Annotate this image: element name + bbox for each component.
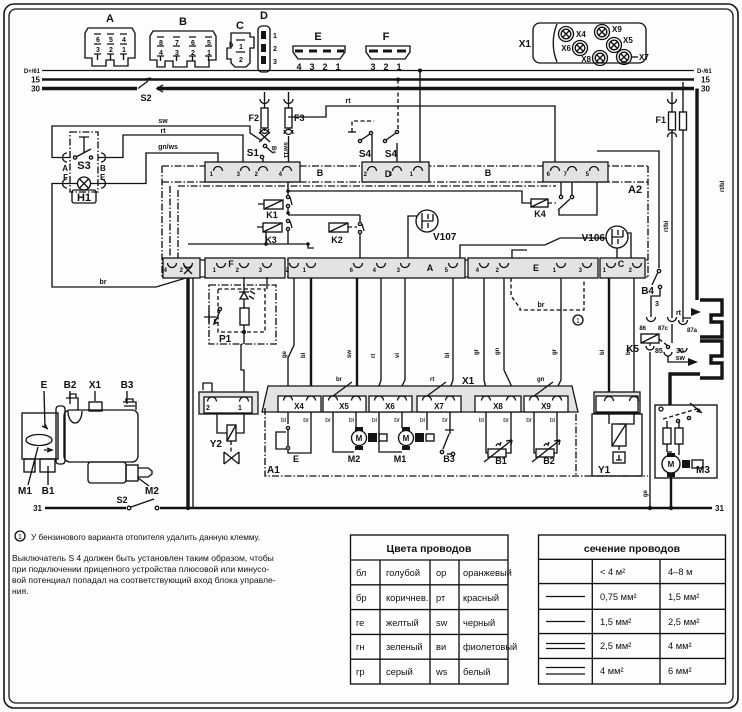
svg-text:2: 2 <box>273 46 277 53</box>
connector F <box>366 31 410 72</box>
svg-text:B1: B1 <box>42 486 55 497</box>
sensor B1 <box>484 424 512 466</box>
motor M1 <box>379 424 434 464</box>
switch S3 with lamp H1 block <box>62 132 106 192</box>
svg-text:5: 5 <box>109 37 113 44</box>
svg-text:X7: X7 <box>639 53 649 62</box>
valve Y2 <box>210 414 244 464</box>
svg-text:rt: rt <box>430 377 434 383</box>
svg-text:gn/ws: gn/ws <box>158 144 178 151</box>
svg-text:D: D <box>260 10 268 22</box>
svg-text:bl: bl <box>550 417 556 424</box>
svg-text:X4: X4 <box>294 402 304 411</box>
connector X7 <box>417 396 461 412</box>
connector X8 <box>475 396 521 412</box>
wire vi <box>395 278 405 396</box>
svg-text:K2: K2 <box>331 235 343 245</box>
fuse F3 <box>284 92 305 166</box>
svg-text:6: 6 <box>191 40 195 47</box>
motor unit M3 <box>655 403 717 508</box>
svg-text:0,75 мм²: 0,75 мм² <box>600 592 637 602</box>
svg-text:A2: A2 <box>628 184 642 196</box>
svg-text:4: 4 <box>122 37 126 44</box>
strip pins bottom row <box>168 263 642 268</box>
svg-text:S3: S3 <box>77 160 90 172</box>
svg-text:rt: rt <box>345 98 351 105</box>
svg-text:F: F <box>383 31 390 43</box>
svg-text:B: B <box>317 168 324 178</box>
svg-text:2,5 мм²: 2,5 мм² <box>668 617 699 627</box>
svg-text:желтый: желтый <box>386 618 419 628</box>
svg-text:br: br <box>538 302 545 309</box>
svg-text:br: br <box>100 279 107 286</box>
svg-text:7: 7 <box>175 40 179 47</box>
svg-text:b: b <box>229 42 233 49</box>
svg-text:3: 3 <box>96 47 100 54</box>
svg-text:зеленый: зеленый <box>386 642 423 652</box>
K2 contact <box>358 215 364 258</box>
svg-text:X1: X1 <box>519 39 532 50</box>
svg-text:B: B <box>100 164 106 173</box>
svg-text:D-/61: D-/61 <box>697 69 712 75</box>
svg-text:C: C <box>236 20 244 32</box>
svg-text:K1: K1 <box>266 210 278 220</box>
connector X6 <box>369 396 412 412</box>
fuse F2 <box>248 92 269 134</box>
svg-text:K5: K5 <box>626 344 639 355</box>
wire rt diagonal <box>427 377 446 396</box>
note 1 text <box>15 531 260 542</box>
switch E in A1 <box>276 424 311 464</box>
bus 30 right heavy drop <box>695 89 698 301</box>
wire to V106 <box>460 233 631 258</box>
svg-text:M1: M1 <box>394 454 407 464</box>
svg-text:15: 15 <box>701 76 710 85</box>
svg-text:K4: K4 <box>534 209 546 219</box>
svg-text:при подключении прицепного уст: при подключении прицепного устройства пл… <box>12 564 269 574</box>
svg-text:X5: X5 <box>623 36 633 45</box>
motor M2 <box>333 424 387 464</box>
connector E <box>293 31 345 72</box>
svg-text:M3: M3 <box>696 465 710 476</box>
connector X5 <box>323 396 366 412</box>
svg-text:rt: rt <box>160 128 166 135</box>
svg-text:X1: X1 <box>89 380 102 391</box>
svg-text:2: 2 <box>206 405 210 412</box>
connector X9 <box>524 396 568 412</box>
svg-text:M: M <box>668 460 675 469</box>
svg-text:C: C <box>618 259 625 269</box>
node pin 4 crossed <box>184 266 192 274</box>
wire gn diagonal <box>534 377 553 396</box>
svg-text:sw/11: sw/11 <box>282 142 288 159</box>
svg-text:1,5 мм²: 1,5 мм² <box>600 617 631 627</box>
svg-text:M: M <box>403 434 410 443</box>
svg-text:F: F <box>228 259 234 269</box>
K4 contact <box>558 182 597 215</box>
svg-text:B+: B+ <box>270 146 276 154</box>
svg-text:5: 5 <box>207 40 211 47</box>
svg-text:1: 1 <box>273 33 277 40</box>
terminal X7 <box>617 50 650 65</box>
relay K2 <box>329 223 357 245</box>
svg-text:M1: M1 <box>18 486 32 497</box>
svg-text:вой потенциал попадал на соотв: вой потенциал попадал на соответствующий… <box>12 575 276 585</box>
svg-text:черный: черный <box>463 618 495 628</box>
right harness bracket 2 <box>700 341 722 378</box>
wire ge <box>282 278 294 396</box>
table wire sections <box>539 535 726 684</box>
right harness bracket 1 <box>700 300 722 337</box>
svg-text:rt/bl: rt/bl <box>664 220 670 232</box>
sensor B2 <box>532 424 560 466</box>
connector block X1 top <box>519 23 646 63</box>
wire from bus D+/61 to pin 1 <box>418 69 422 167</box>
svg-text:br: br <box>394 417 401 424</box>
svg-text:F1: F1 <box>655 115 666 125</box>
svg-text:Цвета проводов: Цвета проводов <box>387 543 472 555</box>
svg-text:A: A <box>106 13 114 25</box>
wire gr to X9 <box>552 278 561 396</box>
svg-text:красный: красный <box>463 593 499 603</box>
svg-text:bl: bl <box>349 417 355 424</box>
K3 contact <box>286 211 292 244</box>
heavy feed to M3 <box>670 374 700 405</box>
svg-text:X8: X8 <box>581 55 591 64</box>
svg-text:A: A <box>62 164 68 173</box>
svg-text:X6: X6 <box>561 44 571 53</box>
svg-text:E: E <box>41 380 48 391</box>
note 2 text <box>12 553 276 596</box>
svg-text:bl: bl <box>420 417 426 424</box>
switch S2 on bus 30 <box>138 78 163 103</box>
svg-text:X4: X4 <box>576 30 586 39</box>
svg-text:3: 3 <box>273 59 277 66</box>
svg-text:31: 31 <box>33 504 42 513</box>
svg-text:S2: S2 <box>140 93 151 103</box>
svg-text:1: 1 <box>238 405 242 412</box>
connector D <box>258 10 277 72</box>
svg-text:ге: ге <box>356 618 364 628</box>
svg-text:br: br <box>442 417 449 424</box>
wire rt <box>371 278 381 396</box>
svg-text:6 мм²: 6 мм² <box>668 666 692 676</box>
wire br to Y1 <box>626 278 634 396</box>
svg-text:D+/61: D+/61 <box>24 69 41 75</box>
svg-text:E: E <box>314 31 321 43</box>
svg-text:2: 2 <box>191 50 195 57</box>
svg-text:A1: A1 <box>267 465 280 476</box>
svg-text:4–8 м: 4–8 м <box>668 567 693 577</box>
svg-text:6: 6 <box>96 37 100 44</box>
svg-text:E: E <box>533 263 539 273</box>
svg-text:бл: бл <box>356 568 366 578</box>
A2 bottom connector strip <box>162 258 648 278</box>
svg-text:87a: 87a <box>687 328 698 334</box>
svg-text:E: E <box>293 454 299 464</box>
svg-text:bl: bl <box>372 417 378 424</box>
svg-text:vi: vi <box>395 353 401 358</box>
transistor V107 <box>408 210 457 258</box>
relay K4 <box>531 199 556 219</box>
terminal X5 <box>607 36 634 53</box>
svg-text:B3: B3 <box>121 380 134 391</box>
svg-text:bl: bl <box>281 417 287 424</box>
wire P1 to connector <box>203 344 244 397</box>
connector B <box>150 16 216 67</box>
svg-text:31: 31 <box>715 504 724 513</box>
svg-text:фиолетовый: фиолетовый <box>463 642 517 652</box>
svg-text:br: br <box>526 417 533 424</box>
svg-text:30: 30 <box>31 85 40 94</box>
connector 2-1 left <box>199 392 258 414</box>
svg-text:sw: sw <box>347 350 353 358</box>
svg-text:B1: B1 <box>495 456 507 466</box>
wire br heavy down <box>188 268 193 508</box>
svg-text:X7: X7 <box>434 402 444 411</box>
unit A1 border <box>265 408 648 476</box>
svg-text:P1: P1 <box>219 334 232 345</box>
svg-text:1: 1 <box>239 44 243 51</box>
svg-text:F3: F3 <box>294 113 305 123</box>
svg-text:2: 2 <box>239 57 243 64</box>
svg-text:S1: S1 <box>247 148 260 159</box>
svg-text:1: 1 <box>576 318 580 325</box>
svg-text:V107: V107 <box>433 232 457 243</box>
svg-text:M: M <box>356 434 363 443</box>
svg-text:F: F <box>63 173 68 182</box>
transistor V106 <box>582 226 628 258</box>
svg-text:4 мм²: 4 мм² <box>668 641 692 651</box>
svg-text:ви: ви <box>436 642 446 652</box>
svg-text:1: 1 <box>207 50 211 57</box>
relay K1 <box>258 200 283 220</box>
sensor B4 <box>641 269 661 317</box>
svg-text:2: 2 <box>109 47 113 54</box>
svg-text:sw: sw <box>676 355 686 362</box>
control unit A2 border <box>162 166 648 277</box>
wire sw <box>52 118 262 158</box>
svg-text:rt/bl: rt/bl <box>720 180 726 192</box>
svg-text:Выключатель S 4 должен быть ус: Выключатель S 4 должен быть установлен т… <box>12 553 274 563</box>
strip pins top row <box>214 167 599 172</box>
svg-text:gn: gn <box>537 377 545 383</box>
svg-text:87c: 87c <box>658 326 669 332</box>
terminal X6 <box>561 41 587 56</box>
svg-text:X1: X1 <box>462 376 475 387</box>
switch S2 on bus 31 <box>116 495 158 510</box>
svg-text:8: 8 <box>159 40 163 47</box>
wire rt upper middle <box>288 98 555 166</box>
svg-text:B4: B4 <box>641 286 654 297</box>
terminal X4 <box>559 27 587 42</box>
svg-text:2,5 мм²: 2,5 мм² <box>600 641 631 651</box>
svg-text:bl: bl <box>600 349 606 355</box>
wire br diagonal <box>333 377 352 396</box>
dashed terminal link with node 1 <box>511 278 584 325</box>
svg-text:серый: серый <box>386 667 413 677</box>
wire bl to X7 <box>445 278 453 396</box>
svg-text:Y2: Y2 <box>210 439 223 450</box>
svg-text:85: 85 <box>655 348 663 355</box>
svg-text:B: B <box>179 16 187 28</box>
svg-text:S2: S2 <box>116 495 127 505</box>
svg-text:4: 4 <box>159 50 163 57</box>
svg-text:ge: ge <box>282 350 288 358</box>
switch S1 <box>247 129 288 166</box>
terminal X9 <box>595 25 623 40</box>
svg-text:X9: X9 <box>612 25 622 34</box>
wire gn/ws <box>98 144 218 184</box>
svg-text:sw: sw <box>436 618 448 628</box>
wire gn to X8 <box>495 278 511 396</box>
heater assembly pictorial <box>18 380 159 497</box>
svg-text:X5: X5 <box>339 402 349 411</box>
svg-text:M2: M2 <box>145 486 159 497</box>
svg-text:гн: гн <box>356 642 365 652</box>
svg-text:15: 15 <box>31 76 40 85</box>
svg-text:86: 86 <box>639 326 646 332</box>
svg-text:< 4 м²: < 4 м² <box>600 567 625 577</box>
switch S4 left <box>348 121 374 166</box>
svg-text:X9: X9 <box>541 402 551 411</box>
svg-text:gr: gr <box>552 348 558 355</box>
gauge P1 <box>204 277 276 345</box>
svg-text:1: 1 <box>122 47 126 54</box>
svg-text:ор: ор <box>436 568 446 578</box>
A2 top connector strip <box>162 162 648 182</box>
svg-text:F2: F2 <box>248 113 259 123</box>
svg-text:коричнев.: коричнев. <box>386 593 428 603</box>
connector C <box>227 20 254 67</box>
bus 15 <box>31 76 710 85</box>
svg-text:У бензинового варианта отопите: У бензинового варианта отопителя удалить… <box>31 533 260 542</box>
svg-text:br: br <box>303 417 310 424</box>
wire gr to X8 <box>474 278 486 396</box>
wire bl heavy <box>301 278 311 396</box>
svg-text:gn: gn <box>495 347 501 355</box>
svg-text:сечение проводов: сечение проводов <box>584 543 681 555</box>
arrows to right harness <box>668 308 701 366</box>
svg-text:br: br <box>503 417 510 424</box>
fuse F1 <box>655 82 686 322</box>
svg-text:sw: sw <box>158 118 168 125</box>
connector X4 <box>278 396 321 412</box>
svg-text:1: 1 <box>18 534 22 541</box>
svg-text:bl: bl <box>479 417 485 424</box>
switch S4 right <box>383 78 400 167</box>
svg-text:ge: ge <box>643 489 649 497</box>
wire K3 row <box>288 214 360 216</box>
svg-text:B2: B2 <box>543 456 555 466</box>
svg-text:B: B <box>485 168 492 178</box>
svg-text:1,5 мм²: 1,5 мм² <box>668 592 699 602</box>
svg-text:Y1: Y1 <box>598 465 611 476</box>
svg-text:ws: ws <box>435 667 448 677</box>
svg-text:B2: B2 <box>64 380 77 391</box>
svg-text:bl: bl <box>301 352 307 358</box>
svg-text:gr: gr <box>474 348 480 355</box>
wire right elbow to strip <box>597 151 670 268</box>
wire rt <box>98 128 243 166</box>
svg-text:br: br <box>325 417 332 424</box>
svg-text:M2: M2 <box>348 454 361 464</box>
svg-text:3: 3 <box>655 301 659 308</box>
table wire colors <box>351 535 518 684</box>
lamp H1 <box>63 173 107 204</box>
svg-text:оранжевый: оранжевый <box>463 568 512 578</box>
connector strip X1 bottom <box>262 376 578 412</box>
svg-text:br: br <box>336 377 343 383</box>
svg-text:гр: гр <box>356 667 365 677</box>
relay K3 <box>257 223 282 245</box>
svg-text:3: 3 <box>175 50 179 57</box>
wire label rt/bl <box>720 180 726 192</box>
svg-text:X8: X8 <box>493 402 503 411</box>
svg-text:E: E <box>100 173 106 182</box>
svg-text:бр: бр <box>356 593 367 603</box>
bus 31 <box>33 504 724 513</box>
connector A <box>85 13 135 66</box>
svg-text:30: 30 <box>676 348 684 355</box>
wire lower row <box>188 232 527 258</box>
svg-text:4 мм²: 4 мм² <box>600 666 624 676</box>
svg-text:голубой: голубой <box>386 568 420 578</box>
svg-text:ния.: ния. <box>12 586 29 596</box>
wire bl heavy to Y1 <box>600 278 609 396</box>
svg-text:B3: B3 <box>443 454 455 464</box>
stub wires below connectors <box>288 412 557 424</box>
svg-text:X6: X6 <box>385 402 395 411</box>
bus 30 <box>31 85 710 94</box>
valve Y1 <box>592 392 642 476</box>
terminal X8 <box>581 51 607 66</box>
svg-text:S4: S4 <box>385 149 398 160</box>
svg-text:rt: rt <box>371 354 377 358</box>
svg-text:bl: bl <box>445 352 451 358</box>
wire br left <box>52 184 188 288</box>
svg-text:H1: H1 <box>77 192 91 204</box>
wire sw heavy <box>347 278 357 396</box>
svg-text:30: 30 <box>701 85 710 94</box>
svg-text:рт: рт <box>436 593 446 603</box>
relay K5 <box>626 317 697 508</box>
svg-text:A: A <box>427 263 434 273</box>
bus D+/61 <box>24 69 713 75</box>
svg-text:белый: белый <box>463 667 490 677</box>
wire K1 row <box>288 191 531 203</box>
svg-text:S4: S4 <box>359 149 372 160</box>
K1 contact <box>286 182 292 213</box>
switch B3 <box>427 424 455 464</box>
svg-text:rt: rt <box>676 310 682 317</box>
